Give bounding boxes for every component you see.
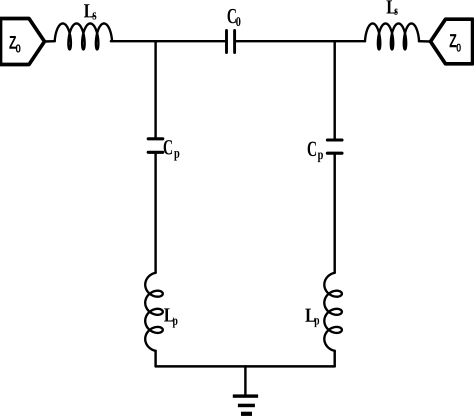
port Z0 right [431, 19, 473, 64]
inductor Ls (left) [55, 23, 112, 49]
wire node A to C0 [156, 40, 226, 42]
wire node A down to Cp left [154, 41, 156, 137]
wire Cp left to Lp left [154, 154, 156, 273]
inductor Ls (right) [365, 23, 419, 49]
label Ls left [84, 4, 96, 19]
label Cp left [164, 140, 180, 161]
label Cp right [308, 142, 323, 162]
label C0 [228, 9, 241, 26]
port Z0 left [1, 19, 45, 65]
wire Lp left to bottom rail [154, 351, 156, 367]
label Lp left [164, 308, 177, 327]
wire port-left to Ls [45, 40, 55, 43]
wire Cp right to Lp right [333, 155, 335, 273]
capacitor Cp left [148, 139, 163, 153]
ground [233, 394, 258, 416]
wire C0 to node B [236, 40, 335, 42]
inductor Lp left [145, 273, 163, 351]
wire Ls to port-right [419, 40, 431, 43]
wire node B down to Cp right [333, 41, 335, 138]
capacitor Cp right [327, 140, 342, 153]
capacitor C0 [227, 31, 235, 53]
label Ls right [386, 0, 397, 14]
wire node B to Ls right [335, 40, 365, 42]
wire Ls to node A [111, 40, 156, 42]
label Z0 left [9, 36, 20, 53]
label Lp right [305, 309, 319, 328]
inductor Lp right [324, 273, 342, 351]
bottom rail wire [156, 365, 335, 367]
wire Lp right to bottom rail [333, 351, 335, 367]
wire rail to ground [244, 366, 246, 394]
label Z0 right [450, 34, 461, 52]
